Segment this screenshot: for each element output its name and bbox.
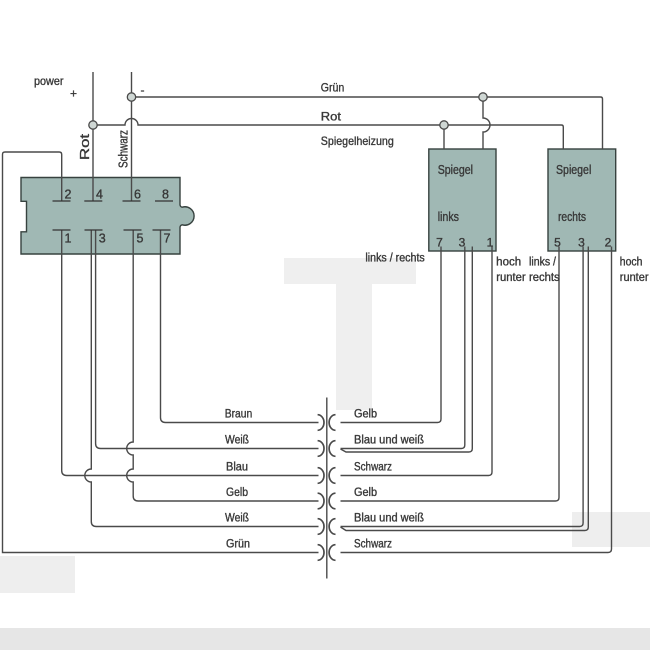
svg-text:rechts: rechts (558, 210, 586, 224)
svg-text:Spiegel: Spiegel (556, 163, 591, 177)
svg-text:5: 5 (137, 232, 144, 246)
wire: pin7 to Braun row (161, 230, 319, 423)
svg-text:7: 7 (164, 232, 171, 246)
svg-text:links /: links / (529, 257, 557, 269)
svg-text:Grün: Grün (321, 81, 345, 95)
svg-text:3: 3 (459, 236, 466, 250)
connector arcs row6 (318, 545, 324, 561)
junction dot Rot branch (440, 121, 448, 129)
pin tick 8 (155, 200, 173, 202)
svg-text:runter: runter (496, 272, 526, 284)
wire: Blau und weiss row1 main to links pin 3 (341, 247, 465, 449)
watermark patch left (0, 556, 75, 593)
connector arcs row3 (318, 468, 324, 484)
wire: pin3 left to Weiss row 2 with hop over Blau (85, 230, 319, 527)
svg-text:Blau und weiß: Blau und weiß (354, 513, 424, 525)
svg-text:6: 6 (134, 188, 141, 202)
svg-text:links: links (438, 210, 459, 224)
connector arcs row5 (318, 519, 324, 535)
watermark bottom bar (0, 628, 650, 650)
svg-text:Blau und weiß: Blau und weiß (354, 435, 424, 447)
connector block left (21, 178, 194, 255)
wire: Rot vertical power + to pin 4 (92, 72, 94, 201)
connector arcs row1 (318, 415, 324, 431)
wire: Gelb row1 right to links pin 7 (341, 247, 442, 423)
svg-text:Rot: Rot (321, 110, 342, 124)
wire: pin1 to Blau row (62, 230, 319, 476)
watermark patch right (572, 512, 650, 547)
svg-text:Spiegel: Spiegel (438, 163, 473, 177)
wire: pin2 up, left, down to Gruen row (3, 152, 319, 553)
svg-text:Weiß: Weiß (225, 513, 249, 525)
svg-text:Rot: Rot (78, 133, 92, 160)
pin tick 6 (123, 200, 141, 202)
Spiegel links box (429, 149, 496, 251)
svg-text:Grün: Grün (226, 539, 250, 551)
wire: Gruen horizontal top (132, 97, 603, 149)
wire: Rot horizontal with hop over Schwarz (93, 119, 563, 149)
wire: Gruen branch down to Spiegel links with hop over Rot (483, 97, 490, 149)
connector arcs row2 (318, 441, 324, 457)
svg-text:hoch: hoch (620, 257, 643, 269)
watermark T (284, 258, 416, 410)
svg-text:Spiegelheizung: Spiegelheizung (321, 134, 394, 148)
svg-text:-: - (141, 83, 145, 97)
svg-text:Braun: Braun (225, 409, 253, 421)
wire: Schwarz row2 to rechts pin 2 (341, 247, 612, 553)
Spiegel rechts box (548, 149, 616, 251)
wire: Blau und weiss row1 second to links pin 3 (341, 247, 473, 453)
svg-text:Weiß: Weiß (225, 435, 249, 447)
pin tick 1 (53, 229, 71, 231)
wire: Blau und weiss row2 second to rechts pin 3 (341, 247, 589, 531)
svg-text:7: 7 (436, 236, 443, 250)
svg-text:+: + (70, 87, 77, 101)
svg-text:2: 2 (65, 188, 72, 202)
junction dot at Rot/power (89, 121, 97, 129)
svg-text:links / rechts: links / rechts (365, 253, 425, 265)
wire: Schwarz vertical power - to pin 6 (131, 72, 133, 201)
pin tick 2 (53, 200, 71, 202)
pin tick 7 (153, 229, 171, 231)
svg-text:5: 5 (554, 236, 561, 250)
svg-text:4: 4 (96, 188, 103, 202)
wire: Schwarz row1 to links pin 1 (341, 247, 493, 476)
svg-text:2: 2 (605, 236, 612, 250)
svg-text:power: power (34, 74, 64, 88)
wire: pin3 right to Weiss row 1 (96, 230, 319, 449)
wire: Rot branch down to Spiegel links (443, 125, 445, 149)
pin tick 4 (84, 200, 102, 202)
wire: Gelb row2 to rechts pin 5 (341, 247, 560, 502)
svg-text:Schwarz: Schwarz (117, 130, 131, 168)
svg-text:Gelb: Gelb (354, 409, 377, 421)
svg-text:hoch: hoch (496, 257, 521, 269)
svg-text:Blau: Blau (226, 462, 248, 474)
wire: pin5 to Gelb row left with hops over Weiss1 and Blau (127, 230, 319, 501)
pin tick 5 (124, 229, 142, 231)
connector middle vertical line (326, 398, 328, 579)
connector arcs row4 (318, 493, 324, 509)
svg-text:runter: runter (620, 272, 649, 284)
pin tick 3 (85, 229, 103, 231)
svg-text:1: 1 (65, 232, 72, 246)
wire: Blau und weiss row2 main to rechts pin 3 (341, 247, 584, 527)
svg-text:Schwarz: Schwarz (354, 462, 392, 474)
svg-text:Schwarz: Schwarz (354, 539, 392, 551)
svg-text:1: 1 (487, 236, 494, 250)
svg-text:Gelb: Gelb (226, 487, 248, 499)
svg-text:3: 3 (578, 236, 585, 250)
svg-text:rechts: rechts (529, 272, 560, 284)
svg-text:8: 8 (162, 188, 169, 202)
svg-text:3: 3 (99, 232, 106, 246)
junction dot Gruen branch (479, 93, 487, 101)
svg-text:Gelb: Gelb (354, 487, 377, 499)
junction dot at Schwarz/Gruen (127, 93, 135, 101)
